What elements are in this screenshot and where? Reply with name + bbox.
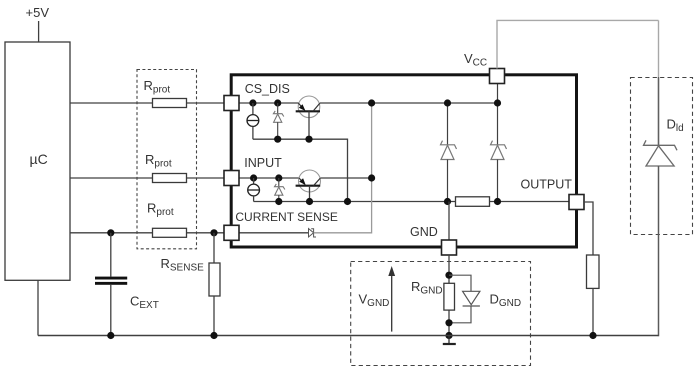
node dot bus1 zener	[274, 136, 281, 143]
zener diode ESD Z1	[277, 103, 279, 114]
current source I1	[252, 103, 254, 115]
svg-text:CURRENT SENSE: CURRENT SENSE	[235, 210, 337, 224]
node dot bus2 zener	[275, 198, 282, 205]
node dot INPUT row zener tap	[275, 174, 282, 181]
resistor R_prot 2	[153, 174, 187, 183]
wire CEXT top lead	[110, 233, 112, 277]
wire CEXT bottom lead	[110, 285, 112, 336]
diode D_ld (zener)	[644, 140, 678, 150]
svg-text:OUTPUT: OUTPUT	[521, 178, 573, 192]
wire internal main bus	[254, 201, 569, 203]
wire RSENSE bottom lead	[213, 296, 215, 336]
wire uC bottom drop	[37, 280, 39, 335]
IC body outline	[231, 75, 576, 247]
node dot CS row current source tap	[249, 99, 256, 106]
node dot bus2 CS-row join	[344, 198, 351, 205]
transistor Q1	[298, 96, 320, 118]
node dot rail load resistor	[589, 332, 596, 339]
wire INPUT internal row	[239, 177, 299, 179]
node dot grey net on CS row	[368, 99, 375, 106]
node dot rail at RGND	[445, 332, 452, 339]
svg-text:GND: GND	[410, 225, 438, 239]
node dot RGND bottom	[445, 319, 452, 326]
wire CS row lower bus	[253, 139, 348, 201]
node dot Z4 top	[494, 99, 501, 106]
node dot RGND top	[445, 272, 452, 279]
zener diode Z5 in sense line	[309, 229, 314, 237]
dashed box V_GND	[351, 262, 531, 366]
pin square OUTPUT	[569, 195, 584, 210]
pin square VCC	[490, 69, 505, 84]
wire bottom ground rail	[38, 335, 659, 337]
microcontroller uC box	[5, 42, 70, 280]
wire grey sense net	[314, 103, 372, 233]
node dot rail CEXT	[107, 332, 114, 339]
node dot bus1 transistor	[305, 136, 312, 143]
dashed box D_ld	[631, 78, 693, 235]
resistor R_prot 1	[153, 99, 187, 108]
resistor R_SENSE	[209, 263, 220, 296]
wire RSENSE top lead	[213, 233, 215, 263]
svg-text:µC: µC	[30, 151, 48, 167]
current source I2	[253, 178, 255, 184]
node dot Z4 bottom	[494, 198, 501, 205]
pin square GND	[442, 240, 457, 255]
wire grey VCC riser and top rail	[497, 20, 659, 68]
wire uC to CURRENT SENSE (row 3)	[70, 232, 224, 234]
svg-text:INPUT: INPUT	[244, 156, 282, 170]
junction row3 to RSENSE	[210, 229, 217, 236]
wire uC to INPUT (row 2)	[70, 177, 224, 179]
wire Dld upper lead	[658, 20, 660, 77]
node dot bus2 transistor	[306, 198, 313, 205]
node dot INPUT row current source tap	[250, 174, 257, 181]
node dot CS row zener tap	[274, 99, 281, 106]
diode D_GND branch	[449, 275, 471, 291]
node dot rail RSENSE	[210, 332, 217, 339]
transistor Q2	[299, 170, 321, 192]
svg-text:+5V: +5V	[26, 5, 50, 20]
node dot Z3 top	[444, 99, 451, 106]
junction row3 to CEXT	[107, 229, 114, 236]
svg-text:CS_DIS: CS_DIS	[245, 82, 290, 96]
pin square CS_DIS	[224, 96, 239, 111]
wire GND pin to VGND network	[448, 255, 450, 336]
wire GND drop inside IC	[448, 202, 450, 241]
zener diode Z3	[447, 103, 449, 145]
zener diode ESD Z2	[278, 178, 280, 187]
resistor R_prot 3	[153, 228, 187, 237]
resistor R_GND	[444, 283, 455, 310]
resistor load (output pull-down)	[587, 255, 600, 288]
wire uC to CS_DIS (row 1)	[70, 102, 224, 104]
wire load resistor to rail	[592, 288, 594, 335]
zener diode Z4	[497, 84, 499, 145]
wire CS_DIS internal row	[239, 102, 298, 104]
capacitor C_EXT	[95, 277, 127, 280]
ground symbol	[448, 336, 450, 345]
node dot grey net on INPUT row	[368, 174, 375, 181]
pin square INPUT	[224, 171, 239, 186]
node dot Z3 bottom	[444, 198, 451, 205]
arrow V_GND	[391, 274, 393, 332]
dashed box around Rprot resistors	[137, 70, 197, 249]
wire +5V stub to uC	[38, 21, 40, 42]
pin square CURRENT SENSE	[224, 225, 239, 240]
wire Dld lower lead	[658, 166, 660, 336]
internal resistor on output bus	[456, 197, 490, 207]
wire OUTPUT to load resistor	[584, 202, 593, 255]
wire CURRENT SENSE internal	[239, 232, 309, 234]
